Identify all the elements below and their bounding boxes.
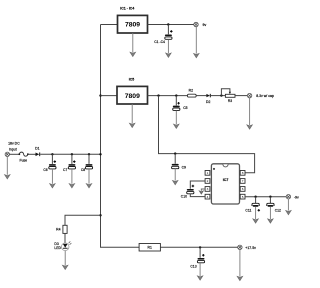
wire: C10 to pin4 — [190, 194, 205, 197]
node: junction C9 — [174, 152, 176, 154]
capacitor C8 — [81, 164, 93, 172]
ground: below LED — [62, 251, 68, 270]
terminal: 9v output — [194, 22, 198, 26]
capacitor C6 — [43, 160, 56, 171]
svg-text:D2: D2 — [206, 100, 210, 104]
resistor R1 — [139, 244, 160, 252]
svg-text:C6: C6 — [43, 168, 47, 172]
svg-text:R4: R4 — [56, 227, 60, 231]
diode D1 — [35, 147, 40, 157]
pin 7 — [240, 179, 245, 184]
terminal: 18v DC input — [5, 152, 9, 156]
diode D2 — [206, 94, 211, 104]
node: junction C5 — [175, 94, 177, 96]
wire: pin5 negative rail — [245, 196, 286, 198]
wire: R3 wiper loop — [221, 89, 230, 96]
ground: below +17.5v terminal — [237, 250, 243, 281]
svg-text:6: 6 — [242, 187, 244, 191]
svg-text:IC5: IC5 — [129, 77, 135, 81]
ground: row1 regulator gnd pin — [130, 33, 136, 57]
svg-text:3: 3 — [207, 187, 209, 191]
wire: stem to C7 — [71, 154, 73, 164]
svg-text:7809: 7809 — [125, 22, 140, 29]
ground: below C7 — [69, 169, 75, 188]
wire: stem to C1-C4 — [167, 25, 169, 35]
svg-text:Fuse: Fuse — [20, 159, 28, 163]
svg-text:C7: C7 — [63, 168, 67, 172]
pin 8 — [240, 171, 245, 176]
pin 1 — [205, 171, 210, 176]
svg-text:C12: C12 — [275, 208, 281, 212]
svg-text:IC7: IC7 — [223, 178, 229, 182]
svg-text:C5: C5 — [183, 106, 187, 110]
capacitor C11 — [245, 203, 260, 212]
ground: below C13 — [197, 263, 203, 280]
svg-text:-9v: -9v — [294, 196, 299, 200]
svg-text:C11: C11 — [245, 208, 251, 212]
svg-text:8: 8 — [242, 171, 244, 175]
node: junction to 7660 supply — [157, 94, 159, 96]
svg-text:D1: D1 — [35, 147, 39, 151]
regulator IC5 (7809) — [117, 86, 148, 104]
resistor R4 — [56, 225, 67, 233]
ground: below -9v terminal — [286, 199, 292, 215]
svg-text:1: 1 — [207, 171, 209, 175]
svg-text:8.3v w/ cap: 8.3v w/ cap — [256, 94, 274, 98]
wire: fuse to D1 — [29, 153, 36, 155]
node: junction R3 wiper — [220, 94, 222, 96]
node: junction C8 — [88, 153, 90, 155]
svg-text:R3: R3 — [228, 99, 232, 103]
regulator IC1-IC4 (7809) — [118, 15, 148, 33]
wire: R1 to +17.5v terminal — [160, 246, 238, 248]
node: junction row1 cap — [167, 23, 169, 25]
ground: pin3 — [199, 189, 205, 194]
wire: row2 output — [148, 95, 188, 97]
node: junction rail to LED branch — [99, 214, 101, 216]
LED D3 — [54, 241, 71, 250]
svg-text:C10: C10 — [181, 194, 187, 198]
capacitor C7 — [63, 160, 75, 171]
svg-text:input: input — [9, 147, 17, 151]
wire: main input rail (vertical) with bottom-row turn — [101, 25, 140, 248]
svg-text:7809: 7809 — [125, 93, 140, 100]
capacitor C12 — [267, 203, 281, 212]
node: junction C12 — [269, 196, 271, 198]
wire: R2 to D2 — [196, 95, 206, 97]
pin 6 — [240, 187, 245, 192]
svg-text:IC1 - IC4: IC1 - IC4 — [120, 7, 134, 11]
wire: stem to C8 — [88, 154, 90, 164]
ground: below C11 — [253, 207, 259, 223]
svg-text:R1: R1 — [148, 246, 152, 250]
node: junction C11 — [254, 196, 256, 198]
ground: below input terminal — [5, 157, 11, 180]
svg-text:C9: C9 — [182, 166, 186, 170]
node: junction input to rail — [99, 153, 101, 155]
wire: D1 to rail — [40, 153, 100, 155]
capacitor C13 — [190, 254, 204, 268]
ground: below C9 — [172, 169, 178, 185]
wire: stem to C13 — [199, 247, 201, 257]
svg-text:7: 7 — [242, 179, 244, 183]
svg-text:C1 -C4: C1 -C4 — [154, 40, 165, 44]
wire: stem to C9 — [174, 154, 176, 164]
wire: rail to R4 — [65, 215, 101, 225]
pin 5 — [240, 194, 245, 199]
capacitor C5 — [173, 102, 188, 110]
ground: below C6 — [50, 169, 56, 188]
wire: stem to C6 — [51, 154, 53, 164]
ground: below C1-C4 — [166, 39, 172, 57]
wire: stem to C5 — [175, 96, 177, 106]
svg-text:2: 2 — [207, 179, 209, 183]
wire: stem to C12 — [269, 197, 271, 204]
wire: row2 regulator input — [101, 95, 118, 97]
wire: R4 to LED — [64, 233, 66, 243]
ground: below C5 — [174, 111, 180, 129]
svg-text:18v DC: 18v DC — [8, 142, 20, 146]
ground: row2 regulator gnd pin — [129, 104, 135, 128]
terminal: 8.3v output — [247, 93, 251, 97]
node: junction rail to row2 input — [99, 94, 101, 96]
svg-text:C13: C13 — [190, 264, 196, 268]
svg-text:C8: C8 — [81, 168, 85, 172]
svg-text:5: 5 — [242, 195, 244, 199]
pin 4 — [205, 194, 210, 199]
wire: D2 to R3 — [211, 95, 226, 97]
terminal: -9v output — [286, 195, 290, 199]
wire: R3 to output terminal — [235, 95, 247, 97]
svg-text:4: 4 — [207, 195, 209, 199]
wire: row1 regulator output to 9v terminal — [148, 24, 195, 26]
ground: below C8 — [86, 169, 92, 188]
wire: stem to C11 — [255, 197, 257, 204]
capacitor C9 — [172, 164, 186, 170]
wire: 9v feed to IC7 pin8 — [159, 96, 255, 173]
fuse — [18, 152, 28, 163]
ground: below 9v terminal — [194, 27, 200, 58]
wire: input terminal to fuse — [9, 153, 18, 155]
pin 2 — [205, 179, 210, 184]
node: junction C7 — [71, 153, 73, 155]
svg-text:R2: R2 — [189, 89, 193, 93]
node: junction C6 — [51, 153, 53, 155]
charge-pump IC7 body — [211, 164, 239, 204]
svg-text:LED: LED — [54, 246, 61, 250]
svg-text:9v: 9v — [203, 23, 207, 27]
capacitor C10 — [181, 185, 194, 199]
resistor R2 — [187, 89, 196, 97]
ground: below 8.3v terminal — [247, 98, 253, 129]
ground: below C12 — [268, 207, 274, 223]
wire: row1 regulator input — [101, 24, 118, 26]
node: junction C13 — [199, 246, 201, 248]
svg-text:+17.5v: +17.5v — [245, 246, 256, 250]
potentiometer R3 — [225, 92, 235, 103]
terminal: +17.5v output — [238, 245, 242, 249]
capacitor C1-C4 — [154, 30, 172, 44]
wire: pin2 to C10 — [190, 181, 205, 189]
pin 3 — [205, 187, 210, 192]
